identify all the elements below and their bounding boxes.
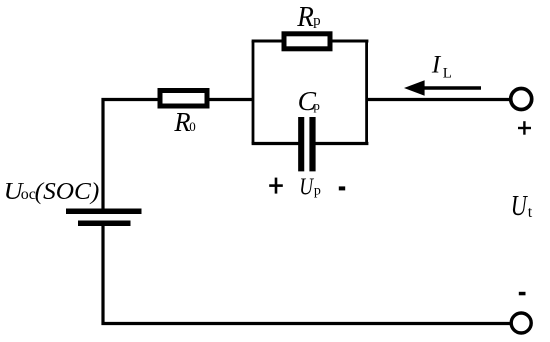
svg-text:p: p (313, 13, 321, 29)
svg-text:0: 0 (189, 119, 196, 134)
svg-text:U: U (511, 190, 529, 222)
svg-text:I: I (431, 52, 442, 79)
svg-text:(SOC): (SOC) (35, 179, 100, 205)
svg-text:p: p (314, 184, 321, 199)
svg-text:t: t (528, 204, 533, 221)
svg-text:R: R (296, 2, 314, 33)
svg-text:p: p (313, 98, 320, 113)
svg-text:U: U (299, 174, 314, 200)
svg-text:L: L (443, 65, 452, 81)
svg-text:oc: oc (21, 186, 36, 203)
